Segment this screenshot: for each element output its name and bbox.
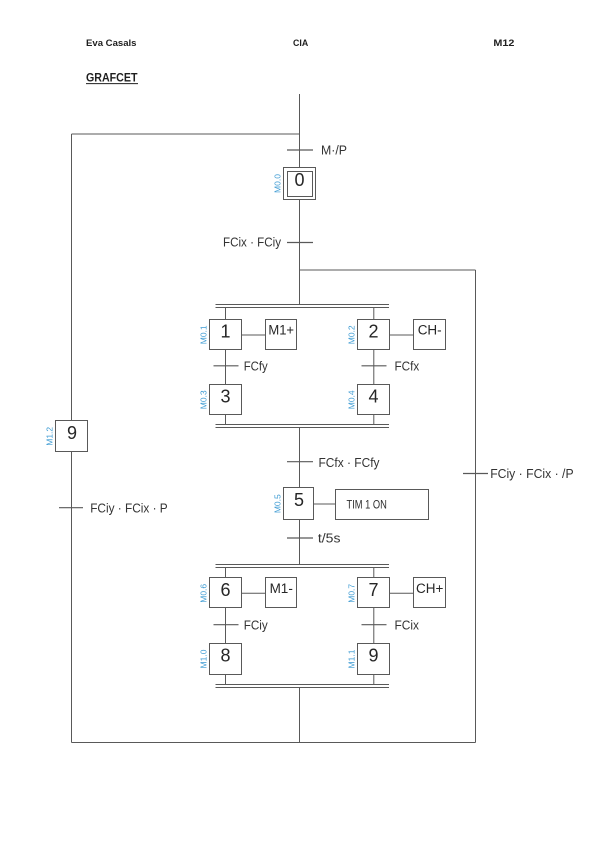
label: M0.7 (blue, rotated) xyxy=(347,584,357,603)
wire: main vertical bottom segment xyxy=(299,688,301,743)
step 9 (lower right branch) xyxy=(358,644,390,675)
parallel join bar A (double line) xyxy=(216,425,390,428)
wire: step1 to action M1+ xyxy=(242,334,267,336)
wire: step5 to timer action box xyxy=(314,503,337,505)
svg-text:CH-: CH- xyxy=(418,323,442,338)
svg-text:CIA: CIA xyxy=(293,38,308,49)
label: M·/P xyxy=(321,143,347,158)
wire: bottom return horizontal xyxy=(72,742,476,744)
transition bar: FCfx xyxy=(362,365,387,367)
transition bar: FCiy·FCix·P xyxy=(59,507,83,509)
wire: right loop vertical xyxy=(475,270,477,743)
svg-text:M1.2: M1.2 xyxy=(45,427,55,446)
step 3 xyxy=(210,385,242,415)
wire: left feedback horizontal top xyxy=(72,133,300,135)
svg-text:FCfx: FCfx xyxy=(395,358,420,373)
label: M0.1 (blue, rotated) xyxy=(199,325,209,344)
action box CH- xyxy=(414,320,446,350)
svg-text:5: 5 xyxy=(294,490,304,510)
action box TIM 1 ON xyxy=(336,490,429,520)
transition bar: FCiy xyxy=(214,624,239,626)
svg-text:9: 9 xyxy=(67,423,77,443)
svg-text:M·/P: M·/P xyxy=(321,143,347,158)
step 4 xyxy=(358,385,390,415)
step 8 xyxy=(210,644,242,675)
parallel split bar B (double line) xyxy=(216,565,390,568)
svg-text:FCfx · FCfy: FCfx · FCfy xyxy=(319,455,380,470)
step 9 (left feedback branch) xyxy=(56,421,88,452)
svg-text:M12: M12 xyxy=(493,38,514,49)
svg-text:FCiy · FCix · /P: FCiy · FCix · /P xyxy=(490,466,573,481)
svg-text:9: 9 xyxy=(368,646,378,666)
svg-text:t/5s: t/5s xyxy=(318,532,341,546)
svg-text:TIM 1 ON: TIM 1 ON xyxy=(347,499,387,511)
step 2 xyxy=(358,320,390,350)
label: M0.6 (blue, rotated) xyxy=(199,584,209,603)
header left: Eva Casals xyxy=(86,38,137,49)
svg-text:8: 8 xyxy=(220,646,230,666)
wire: left feedback vertical xyxy=(71,134,73,743)
parallel split bar A (double line) xyxy=(216,305,390,308)
svg-text:FCix: FCix xyxy=(395,617,420,632)
svg-text:6: 6 xyxy=(220,580,230,600)
svg-text:1: 1 xyxy=(220,322,230,342)
step 5 xyxy=(284,488,314,520)
label: FCix · FCiy xyxy=(223,235,281,250)
svg-text:7: 7 xyxy=(368,580,378,600)
wire: branch 1 vertical (upper group) xyxy=(225,308,227,425)
svg-text:M0.6: M0.6 xyxy=(199,584,209,603)
svg-text:GRAFCET: GRAFCET xyxy=(86,71,138,85)
label: M0.5 (blue, rotated) xyxy=(273,494,283,513)
svg-text:FCix · FCiy: FCix · FCiy xyxy=(223,235,281,250)
svg-text:2: 2 xyxy=(368,322,378,342)
wire: branch 2 vertical (lower group) xyxy=(373,568,375,685)
svg-text:3: 3 xyxy=(220,387,230,407)
label: M0.0 (blue, rotated) xyxy=(273,174,283,193)
svg-text:FCfy: FCfy xyxy=(244,358,268,373)
wire: main vertical segment top (start to split bar A) xyxy=(299,94,301,305)
svg-text:M0.2: M0.2 xyxy=(347,325,357,344)
transition bar: M·/P xyxy=(287,149,313,151)
step 7 xyxy=(358,578,390,608)
step 6 xyxy=(210,578,242,608)
svg-text:CH+: CH+ xyxy=(416,581,443,596)
svg-text:FCiy: FCiy xyxy=(244,617,268,632)
svg-text:Eva Casals: Eva Casals xyxy=(86,38,137,49)
svg-text:FCiy · FCix · P: FCiy · FCix · P xyxy=(90,500,168,515)
transition bar: FCfx·FCfy xyxy=(287,461,313,463)
label: M0.3 (blue, rotated) xyxy=(199,390,209,409)
svg-text:M1.1: M1.1 xyxy=(347,649,357,668)
svg-text:M0.7: M0.7 xyxy=(347,584,357,603)
action box M1- xyxy=(266,578,297,608)
svg-text:M0.0: M0.0 xyxy=(273,174,283,193)
label: FCfx xyxy=(395,358,420,373)
wire: step7 to action CH+ xyxy=(390,592,415,594)
transition bar: FCix·FCiy xyxy=(287,242,313,244)
label: FCix xyxy=(395,617,420,632)
svg-text:M0.4: M0.4 xyxy=(347,390,357,409)
label: M0.4 (blue, rotated) xyxy=(347,390,357,409)
label: M1.0 (blue, rotated) xyxy=(199,649,209,668)
svg-text:M1.0: M1.0 xyxy=(199,649,209,668)
label: M0.2 (blue, rotated) xyxy=(347,325,357,344)
transition bar: t/5s xyxy=(287,537,313,539)
wire: step6 to action M1- xyxy=(242,592,267,594)
wire: branch 1 vertical (lower group) xyxy=(225,568,227,685)
svg-text:M1+: M1+ xyxy=(268,323,294,338)
wire: main vertical middle segment xyxy=(299,428,301,565)
svg-text:0: 0 xyxy=(294,170,304,190)
title: GRAFCET underlined xyxy=(86,71,138,85)
parallel join bar B (double line) xyxy=(216,685,390,688)
action box M1+ xyxy=(266,320,297,350)
svg-text:M1-: M1- xyxy=(270,581,293,596)
action box CH+ xyxy=(414,578,446,608)
svg-text:4: 4 xyxy=(368,387,378,407)
wire: branch 2 vertical (upper group) xyxy=(373,308,375,425)
label: FCiy xyxy=(244,617,268,632)
svg-text:M0.1: M0.1 xyxy=(199,325,209,344)
label: FCfx · FCfy xyxy=(319,455,380,470)
label: FCiy · FCix · P xyxy=(90,500,168,515)
step 1 xyxy=(210,320,242,350)
label: FCfy xyxy=(244,358,268,373)
label: t/5s xyxy=(318,532,341,546)
label: FCiy · FCix · /P xyxy=(490,466,573,481)
transition bar: FCfy xyxy=(214,365,239,367)
label: M1.1 (blue, rotated) xyxy=(347,649,357,668)
svg-text:M0.5: M0.5 xyxy=(273,494,283,513)
wire: step2 to action CH- xyxy=(390,334,415,336)
header center: CIA xyxy=(293,38,308,49)
label: M1.2 (blue, rotated) xyxy=(45,427,55,446)
step 0 (initial, double box) xyxy=(284,168,316,200)
wire: right branch horizontal xyxy=(300,269,476,271)
transition bar: FCiy·FCix·/P xyxy=(463,473,488,475)
header right: M12 xyxy=(493,38,514,49)
svg-text:M0.3: M0.3 xyxy=(199,390,209,409)
transition bar: FCix xyxy=(362,624,387,626)
